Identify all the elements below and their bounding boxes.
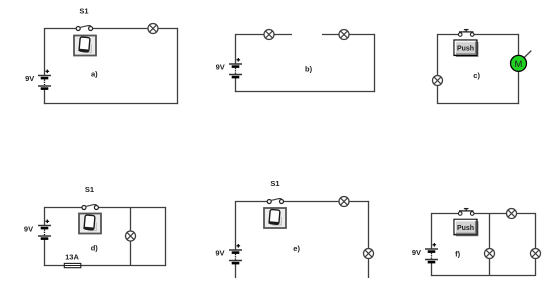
svg-text:S1: S1: [79, 6, 88, 15]
rocker switch icon circuit a: [74, 36, 96, 56]
svg-text:e): e): [293, 244, 300, 253]
wire f left edge upper: [431, 213, 433, 249]
wire f middle branch: [489, 214, 491, 276]
switch S1 blade circuit a: [80, 26, 91, 28]
battery 9V circuit a: [38, 70, 51, 89]
svg-text:13A: 13A: [65, 253, 79, 262]
rocker switch icon circuit d: [79, 214, 101, 234]
switch S1 contacts circuit a: [76, 27, 92, 31]
wire d top-left segment: [45, 207, 83, 209]
wire d bottom: [44, 265, 166, 267]
wire f top-right segment: [474, 213, 536, 215]
wire a top-left segment: [45, 28, 77, 30]
wire e top-right segment: [284, 201, 370, 203]
push button icon circuit c: [454, 40, 479, 57]
svg-text:S1: S1: [270, 179, 279, 188]
svg-text:M: M: [515, 59, 523, 70]
lamp L1 circuit a: [148, 24, 158, 34]
svg-text:9V: 9V: [412, 248, 421, 257]
lamp L1 top circuit f: [507, 209, 517, 219]
wire b right edge: [374, 34, 376, 92]
wire c top-right segment: [474, 34, 519, 36]
wire d top-right segment: [98, 207, 166, 209]
wire a right edge: [177, 28, 179, 104]
push button icon circuit f: [454, 219, 479, 236]
wire f bottom: [431, 275, 536, 277]
battery 9V circuit b: [229, 58, 242, 77]
svg-text:S1: S1: [85, 185, 94, 194]
push switch symbol circuit f: [458, 209, 474, 216]
switch S1 blade circuit e: [271, 199, 282, 201]
lamp L2 circuit e: [364, 249, 374, 259]
svg-text:a): a): [91, 69, 98, 78]
svg-text:9V: 9V: [25, 74, 34, 83]
switch S1 contacts circuit e: [267, 200, 283, 204]
svg-text:9V: 9V: [24, 225, 33, 234]
wire b top-left segment: [236, 34, 293, 36]
rocker switch icon circuit e: [264, 208, 286, 228]
lamp L1 circuit b: [264, 30, 274, 40]
lamp L1 circuit c: [433, 76, 443, 86]
wire c top-left segment: [438, 34, 459, 36]
svg-text:9V: 9V: [215, 249, 224, 258]
lamp L3 right circuit f: [531, 249, 541, 259]
svg-text:b): b): [305, 64, 313, 73]
svg-text:f): f): [455, 250, 460, 259]
wire c right edge lower: [518, 69, 520, 104]
wire d left edge upper: [44, 207, 46, 226]
battery 9V circuit d: [38, 220, 51, 239]
battery 9V circuit e: [229, 244, 242, 263]
svg-text:9V: 9V: [216, 63, 225, 72]
battery 9V circuit f: [425, 243, 438, 262]
wire b left edge lower: [235, 77, 237, 92]
switch S1 contacts circuit d: [82, 206, 98, 210]
fuse 13A circuit d: [64, 263, 81, 267]
wire b left edge upper: [235, 34, 237, 64]
switch S1 blade circuit d: [85, 205, 96, 207]
lamp L1 circuit e: [339, 197, 349, 207]
wire e left edge lower: [235, 263, 237, 278]
lamp L2 circuit b: [339, 30, 349, 40]
wire f right edge: [535, 213, 537, 276]
svg-text:c): c): [473, 71, 480, 80]
wire d middle branch: [130, 208, 132, 266]
wire f left edge lower: [431, 262, 433, 276]
push switch symbol circuit c: [458, 30, 474, 37]
wire d left edge lower: [44, 239, 46, 267]
svg-text:d): d): [91, 244, 99, 253]
lamp L2 middle circuit f: [485, 249, 495, 259]
wire d right edge: [165, 207, 167, 266]
wire b top-right segment: [322, 34, 375, 36]
wire c left edge: [437, 34, 439, 104]
wire c right edge upper: [518, 34, 520, 58]
wire b bottom: [235, 91, 375, 93]
wire e left edge upper: [235, 201, 237, 250]
wire a top-right segment: [92, 28, 178, 30]
lamp L1 circuit d: [126, 231, 136, 241]
wire a bottom: [44, 103, 178, 105]
wire a left edge lower: [44, 89, 46, 105]
wire e top-left segment: [236, 201, 268, 203]
wire c bottom: [437, 103, 519, 105]
wire a left edge upper: [44, 28, 46, 76]
wire f top-left segment: [432, 213, 459, 215]
motor M circuit c: [511, 51, 532, 72]
wire e right edge: [368, 201, 370, 278]
